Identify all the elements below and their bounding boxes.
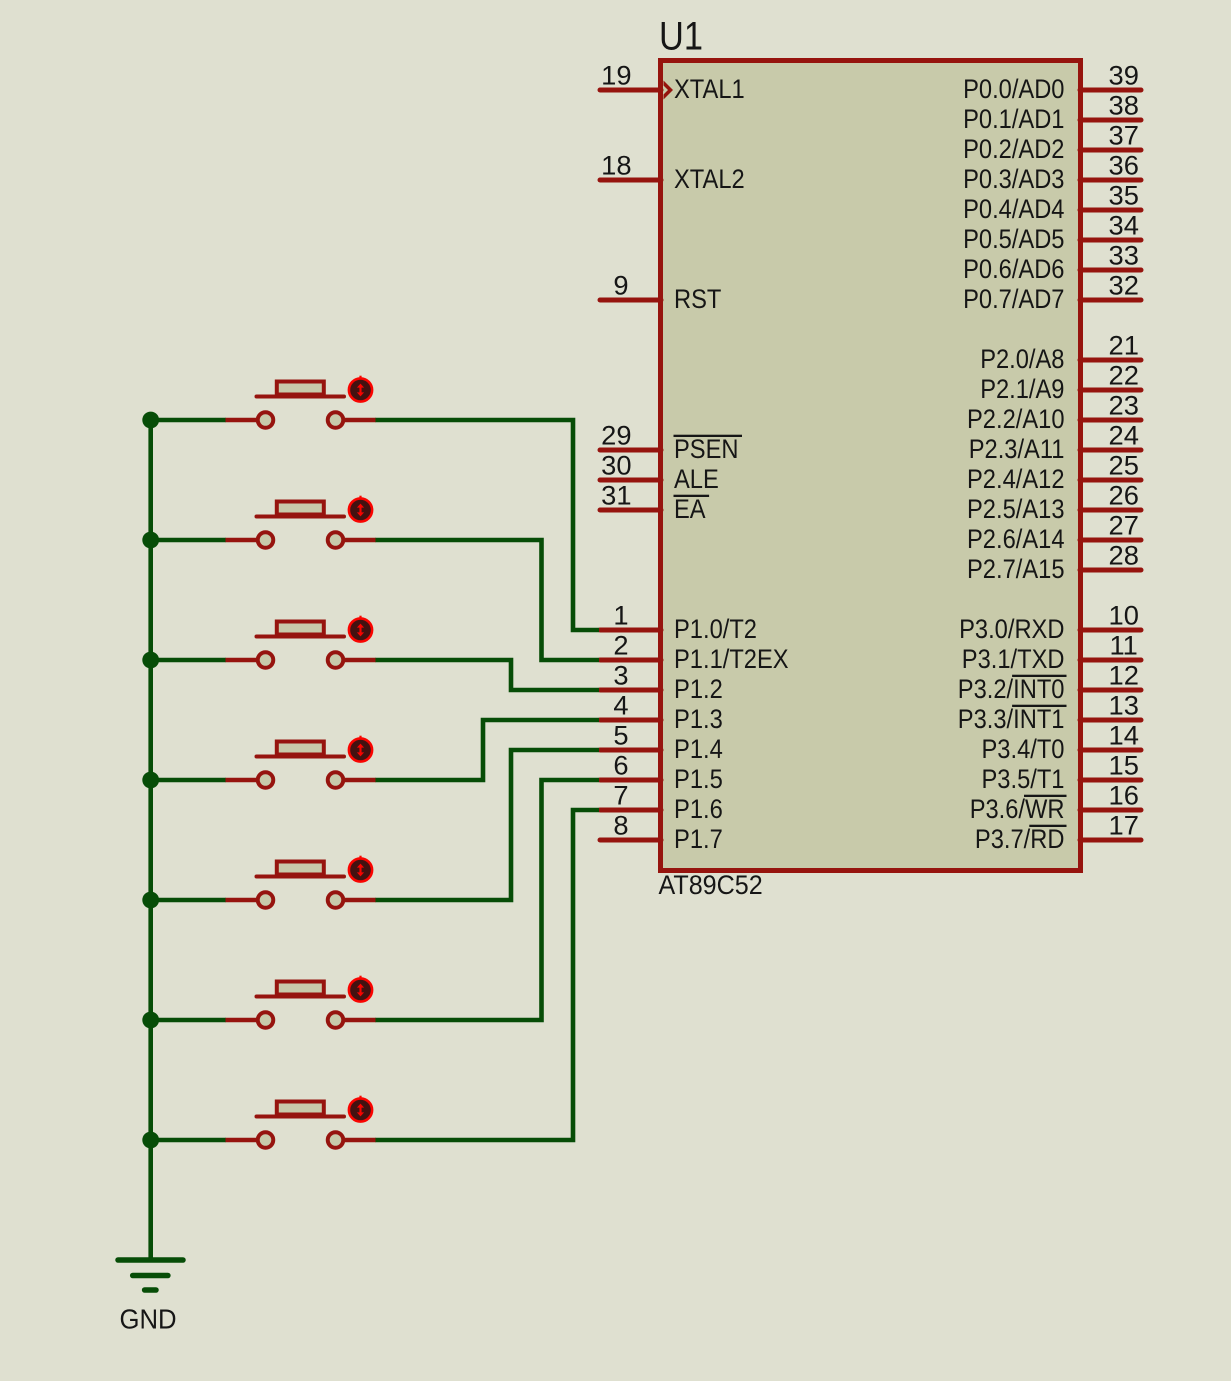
svg-text:P0.5/AD5: P0.5/AD5: [963, 224, 1064, 254]
svg-text:P0.6/AD6: P0.6/AD6: [963, 254, 1064, 284]
push button SW2: [226, 502, 376, 548]
svg-text:14: 14: [1109, 721, 1139, 751]
svg-text:30: 30: [601, 451, 631, 481]
svg-text:P1.0/T2: P1.0/T2: [674, 614, 757, 644]
svg-text:36: 36: [1109, 151, 1139, 181]
pin 32 (P0.7/AD7) of U1: [963, 271, 1141, 315]
svg-text:RST: RST: [674, 284, 721, 314]
push button SW3: [226, 622, 376, 668]
pin 24 (P2.3/A11) of U1: [969, 421, 1141, 465]
push button SW1: [226, 382, 376, 428]
svg-text:35: 35: [1109, 181, 1139, 211]
IC U1 value label AT89C52: [659, 870, 763, 900]
svg-text:28: 28: [1109, 541, 1139, 571]
svg-text:12: 12: [1109, 661, 1139, 691]
svg-text:GND: GND: [120, 1304, 177, 1335]
svg-text:P2.5/A13: P2.5/A13: [967, 494, 1065, 524]
svg-text:P0.1/AD1: P0.1/AD1: [963, 104, 1064, 134]
svg-text:37: 37: [1109, 121, 1139, 151]
wire: rail to button SW6: [150, 1018, 226, 1023]
svg-text:P3.2/INT0: P3.2/INT0: [958, 674, 1065, 704]
pin 35 (P0.4/AD4) of U1: [963, 181, 1141, 225]
push button SW5 interactive actuator marker: [349, 856, 372, 882]
wire: GND rail vertical: [148, 418, 153, 1260]
pin 26 (P2.5/A13) of U1: [967, 481, 1141, 525]
wire: button SW4 to U1 pin 4 (P1.3): [375, 720, 599, 780]
svg-text:22: 22: [1109, 361, 1139, 391]
svg-text:1: 1: [613, 601, 628, 631]
svg-text:6: 6: [613, 751, 628, 781]
pin 33 (P0.6/AD6) of U1: [963, 241, 1141, 285]
svg-text:PSEN: PSEN: [674, 434, 739, 464]
junction node on GND rail, row 7: [142, 1132, 159, 1149]
pin 38 (P0.1/AD1) of U1: [963, 91, 1141, 135]
junction node on GND rail, row 6: [142, 1012, 159, 1029]
wire: rail to button SW5: [150, 898, 226, 903]
pin 34 (P0.5/AD5) of U1: [963, 211, 1141, 255]
svg-text:16: 16: [1109, 781, 1139, 811]
svg-text:39: 39: [1109, 61, 1139, 91]
wire: button SW5 to U1 pin 5 (P1.4): [375, 750, 599, 900]
svg-text:P3.1/TXD: P3.1/TXD: [962, 644, 1065, 674]
svg-text:P1.6: P1.6: [674, 794, 723, 824]
svg-text:P1.3: P1.3: [674, 704, 723, 734]
IC U1 reference designator label U1: [659, 15, 703, 59]
pin 21 (P2.0/A8) of U1: [980, 331, 1141, 375]
svg-text:11: 11: [1110, 631, 1138, 661]
svg-text:P1.7: P1.7: [674, 824, 723, 854]
svg-text:13: 13: [1109, 691, 1139, 721]
pin 19 (XTAL1) of U1: [600, 61, 745, 105]
svg-text:38: 38: [1109, 91, 1139, 121]
pin 39 (P0.0/AD0) of U1: [963, 61, 1141, 105]
svg-text:23: 23: [1109, 391, 1139, 421]
push button SW7 interactive actuator marker: [349, 1096, 372, 1122]
pin 12 (P3.2/INT0) of U1: [958, 661, 1141, 705]
svg-text:P2.7/A15: P2.7/A15: [967, 554, 1065, 584]
wire: rail to button SW2: [150, 538, 226, 543]
pin 13 (P3.3/INT1) of U1: [958, 691, 1141, 735]
wire: rail to button SW3: [150, 658, 226, 663]
pin 37 (P0.2/AD2) of U1: [963, 121, 1141, 165]
svg-text:AT89C52: AT89C52: [659, 870, 763, 900]
svg-text:29: 29: [601, 421, 631, 451]
wire: rail to button SW7: [150, 1138, 226, 1143]
ground net label GND: [120, 1304, 177, 1335]
svg-text:EA: EA: [674, 494, 706, 524]
push button SW2 interactive actuator marker: [349, 496, 372, 522]
pin 30 (ALE) of U1: [600, 451, 719, 495]
svg-text:8: 8: [613, 811, 628, 841]
svg-text:P2.4/A12: P2.4/A12: [967, 464, 1065, 494]
svg-text:P1.4: P1.4: [674, 734, 723, 764]
svg-text:31: 31: [601, 481, 631, 511]
pin 15 (P3.5/T1) of U1: [982, 751, 1142, 795]
junction node on GND rail, row 4: [142, 772, 159, 789]
pin 23 (P2.2/A10) of U1: [967, 391, 1141, 435]
push button SW7: [226, 1102, 376, 1148]
svg-text:5: 5: [613, 721, 628, 751]
svg-text:7: 7: [613, 781, 628, 811]
pin 31 (EA) of U1: [600, 481, 709, 525]
svg-text:25: 25: [1109, 451, 1139, 481]
pin 8 (P1.7) of U1: [600, 811, 723, 855]
svg-text:21: 21: [1109, 331, 1139, 361]
pin 3 (P1.2) of U1: [600, 661, 723, 705]
svg-text:XTAL1: XTAL1: [674, 74, 745, 104]
svg-text:P1.2: P1.2: [674, 674, 723, 704]
svg-text:P2.2/A10: P2.2/A10: [967, 404, 1065, 434]
pin 1 (P1.0/T2) of U1: [600, 601, 757, 645]
push button SW3 interactive actuator marker: [349, 616, 372, 642]
pin 25 (P2.4/A12) of U1: [967, 451, 1141, 495]
svg-text:9: 9: [613, 271, 628, 301]
ground symbol: [118, 1260, 183, 1290]
svg-text:P2.6/A14: P2.6/A14: [967, 524, 1065, 554]
push button SW6: [226, 982, 376, 1028]
pin 11 (P3.1/TXD) of U1: [962, 631, 1141, 675]
svg-text:33: 33: [1109, 241, 1139, 271]
junction node on GND rail, row 1: [142, 412, 159, 429]
svg-text:18: 18: [601, 151, 631, 181]
svg-text:P1.1/T2EX: P1.1/T2EX: [674, 644, 789, 674]
pin 29 (PSEN) of U1: [600, 421, 742, 465]
IC U1 body: [661, 61, 1081, 871]
junction node on GND rail, row 5: [142, 892, 159, 909]
svg-text:P0.4/AD4: P0.4/AD4: [963, 194, 1064, 224]
pin 17 (P3.7/RD) of U1: [975, 811, 1141, 855]
svg-text:P1.5: P1.5: [674, 764, 723, 794]
svg-text:24: 24: [1109, 421, 1139, 451]
junction node on GND rail, row 3: [142, 652, 159, 669]
svg-text:32: 32: [1109, 271, 1139, 301]
pin 18 (XTAL2) of U1: [600, 151, 745, 195]
svg-text:P3.6/WR: P3.6/WR: [970, 794, 1065, 824]
svg-text:19: 19: [601, 61, 631, 91]
svg-text:4: 4: [613, 691, 628, 721]
pin 10 (P3.0/RXD) of U1: [959, 601, 1141, 645]
svg-text:10: 10: [1109, 601, 1139, 631]
pin 4 (P1.3) of U1: [600, 691, 723, 735]
svg-text:P3.3/INT1: P3.3/INT1: [958, 704, 1065, 734]
svg-text:ALE: ALE: [674, 464, 719, 494]
svg-text:2: 2: [613, 631, 628, 661]
push button SW4 interactive actuator marker: [349, 736, 372, 762]
pin 7 (P1.6) of U1: [600, 781, 723, 825]
svg-text:3: 3: [613, 661, 628, 691]
svg-text:XTAL2: XTAL2: [674, 164, 745, 194]
push button SW5: [226, 862, 376, 908]
svg-text:P0.2/AD2: P0.2/AD2: [963, 134, 1064, 164]
svg-text:U1: U1: [659, 15, 703, 59]
svg-text:P0.3/AD3: P0.3/AD3: [963, 164, 1064, 194]
push button SW4: [226, 742, 376, 788]
push button SW6 interactive actuator marker: [349, 976, 372, 1002]
pin 27 (P2.6/A14) of U1: [967, 511, 1141, 555]
svg-text:P2.3/A11: P2.3/A11: [969, 434, 1065, 464]
push button SW1 interactive actuator marker: [349, 376, 372, 402]
svg-text:34: 34: [1109, 211, 1139, 241]
svg-text:P3.5/T1: P3.5/T1: [982, 764, 1065, 794]
pin 6 (P1.5) of U1: [600, 751, 723, 795]
pin 22 (P2.1/A9) of U1: [980, 361, 1141, 405]
wire: button SW1 to U1 pin 1 (P1.0): [375, 420, 599, 630]
pin 5 (P1.4) of U1: [600, 721, 723, 765]
svg-text:P3.7/RD: P3.7/RD: [975, 824, 1065, 854]
svg-text:15: 15: [1109, 751, 1139, 781]
junction node on GND rail, row 2: [142, 532, 159, 549]
svg-text:17: 17: [1109, 811, 1139, 841]
wire: rail to button SW4: [150, 778, 226, 783]
pin 14 (P3.4/T0) of U1: [982, 721, 1142, 765]
svg-text:P3.4/T0: P3.4/T0: [982, 734, 1065, 764]
svg-text:P2.0/A8: P2.0/A8: [980, 344, 1064, 374]
wire: button SW3 to U1 pin 3 (P1.2): [375, 660, 599, 690]
pin 36 (P0.3/AD3) of U1: [963, 151, 1141, 195]
svg-text:P0.0/AD0: P0.0/AD0: [963, 74, 1064, 104]
svg-text:P2.1/A9: P2.1/A9: [980, 374, 1064, 404]
svg-text:27: 27: [1109, 511, 1139, 541]
wire: button SW2 to U1 pin 2 (P1.1): [375, 540, 599, 660]
wire: button SW6 to U1 pin 6 (P1.5): [375, 780, 599, 1020]
svg-text:P3.0/RXD: P3.0/RXD: [959, 614, 1064, 644]
svg-text:P0.7/AD7: P0.7/AD7: [963, 284, 1064, 314]
pin 28 (P2.7/A15) of U1: [967, 541, 1141, 585]
svg-text:26: 26: [1109, 481, 1139, 511]
wire: button SW7 to U1 pin 7 (P1.6): [375, 810, 599, 1140]
pin 2 (P1.1/T2EX) of U1: [600, 631, 789, 675]
wire: rail to button SW1: [150, 418, 226, 423]
pin 16 (P3.6/WR) of U1: [970, 781, 1141, 825]
pin 9 (RST) of U1: [600, 271, 721, 315]
